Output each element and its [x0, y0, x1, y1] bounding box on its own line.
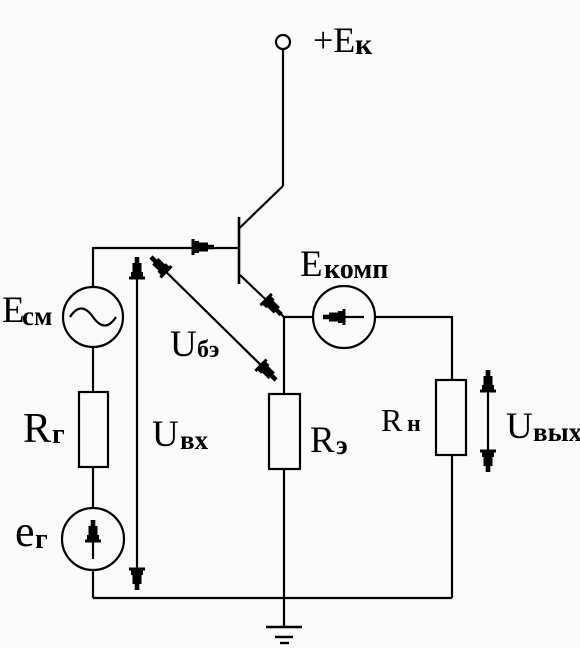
source Ecomp circle: [313, 286, 375, 348]
svg-text:E: E: [300, 244, 323, 285]
svg-text:U: U: [506, 406, 533, 447]
svg-text:см: см: [22, 301, 52, 331]
svg-text:вх: вх: [180, 425, 209, 455]
arrowhead eg: [85, 520, 101, 543]
arrowhead Ube bottom: [254, 359, 281, 386]
svg-text:+E: +E: [313, 20, 355, 60]
arrowhead Ecomp: [323, 309, 346, 325]
svg-text:R: R: [381, 402, 403, 438]
arrowhead Uvx top: [129, 257, 145, 280]
wire bottom rail: [93, 597, 452, 599]
svg-text:бэ: бэ: [197, 337, 219, 363]
wire left top vertical: [92, 247, 94, 287]
wire Ecomp to right corner: [375, 316, 452, 318]
svg-text:R: R: [310, 420, 335, 461]
svg-text:U: U: [170, 324, 197, 365]
resistor Rn body: [436, 380, 466, 455]
svg-text:е: е: [15, 507, 35, 556]
wire emitter to Ecomp: [284, 316, 313, 318]
arrowhead Uvyx top: [480, 370, 496, 393]
svg-text:г: г: [52, 419, 65, 450]
svg-text:вых: вых: [533, 417, 580, 447]
svg-text:комп: комп: [324, 254, 388, 285]
svg-text:к: к: [355, 28, 373, 61]
svg-text:н: н: [407, 411, 421, 437]
ground bar 3: [280, 642, 289, 644]
arrowhead Uvx bottom: [129, 568, 145, 591]
arrowhead emitter: [259, 293, 286, 320]
transistor VT1 emitter lead: [240, 275, 284, 317]
terminal +Ek: [276, 35, 290, 49]
wire collector vertical: [282, 49, 284, 186]
arrowhead Ube top: [145, 251, 172, 278]
arrow line Ube diagonal: [154, 260, 273, 377]
ground bar 2: [275, 636, 293, 638]
source eg circle: [62, 508, 124, 570]
svg-text:R: R: [23, 406, 51, 452]
source Ecm sine symbol: [70, 309, 116, 326]
arrow line Uvx: [136, 261, 138, 586]
svg-text:э: э: [336, 430, 348, 460]
source Ecm circle: [63, 287, 123, 347]
wire Rg to eg: [92, 467, 94, 508]
wire emitter to Re: [283, 317, 285, 394]
ground stem: [283, 598, 285, 627]
wire base: [93, 247, 238, 249]
arrowhead Uvyx bottom: [480, 450, 496, 473]
wire eg to bottom: [92, 570, 94, 598]
transistor VT1 base bar: [238, 217, 241, 284]
wire Ecm to Rg: [92, 347, 94, 392]
source Ecomp arrow line: [338, 316, 364, 318]
resistor Rg body: [79, 392, 108, 467]
arrowhead base current: [192, 239, 215, 255]
arrow line Uvyx: [487, 374, 489, 468]
transistor VT1 collector lead: [240, 186, 284, 228]
resistor Re body: [269, 394, 300, 469]
ground bar 1: [266, 626, 302, 628]
svg-text:г: г: [35, 524, 48, 555]
wire Re to bottom: [283, 469, 285, 598]
svg-text:U: U: [152, 414, 179, 455]
wire Rn to bottom: [451, 455, 453, 598]
source eg arrow line: [92, 527, 94, 559]
wire right vertical to Rn: [451, 316, 453, 380]
